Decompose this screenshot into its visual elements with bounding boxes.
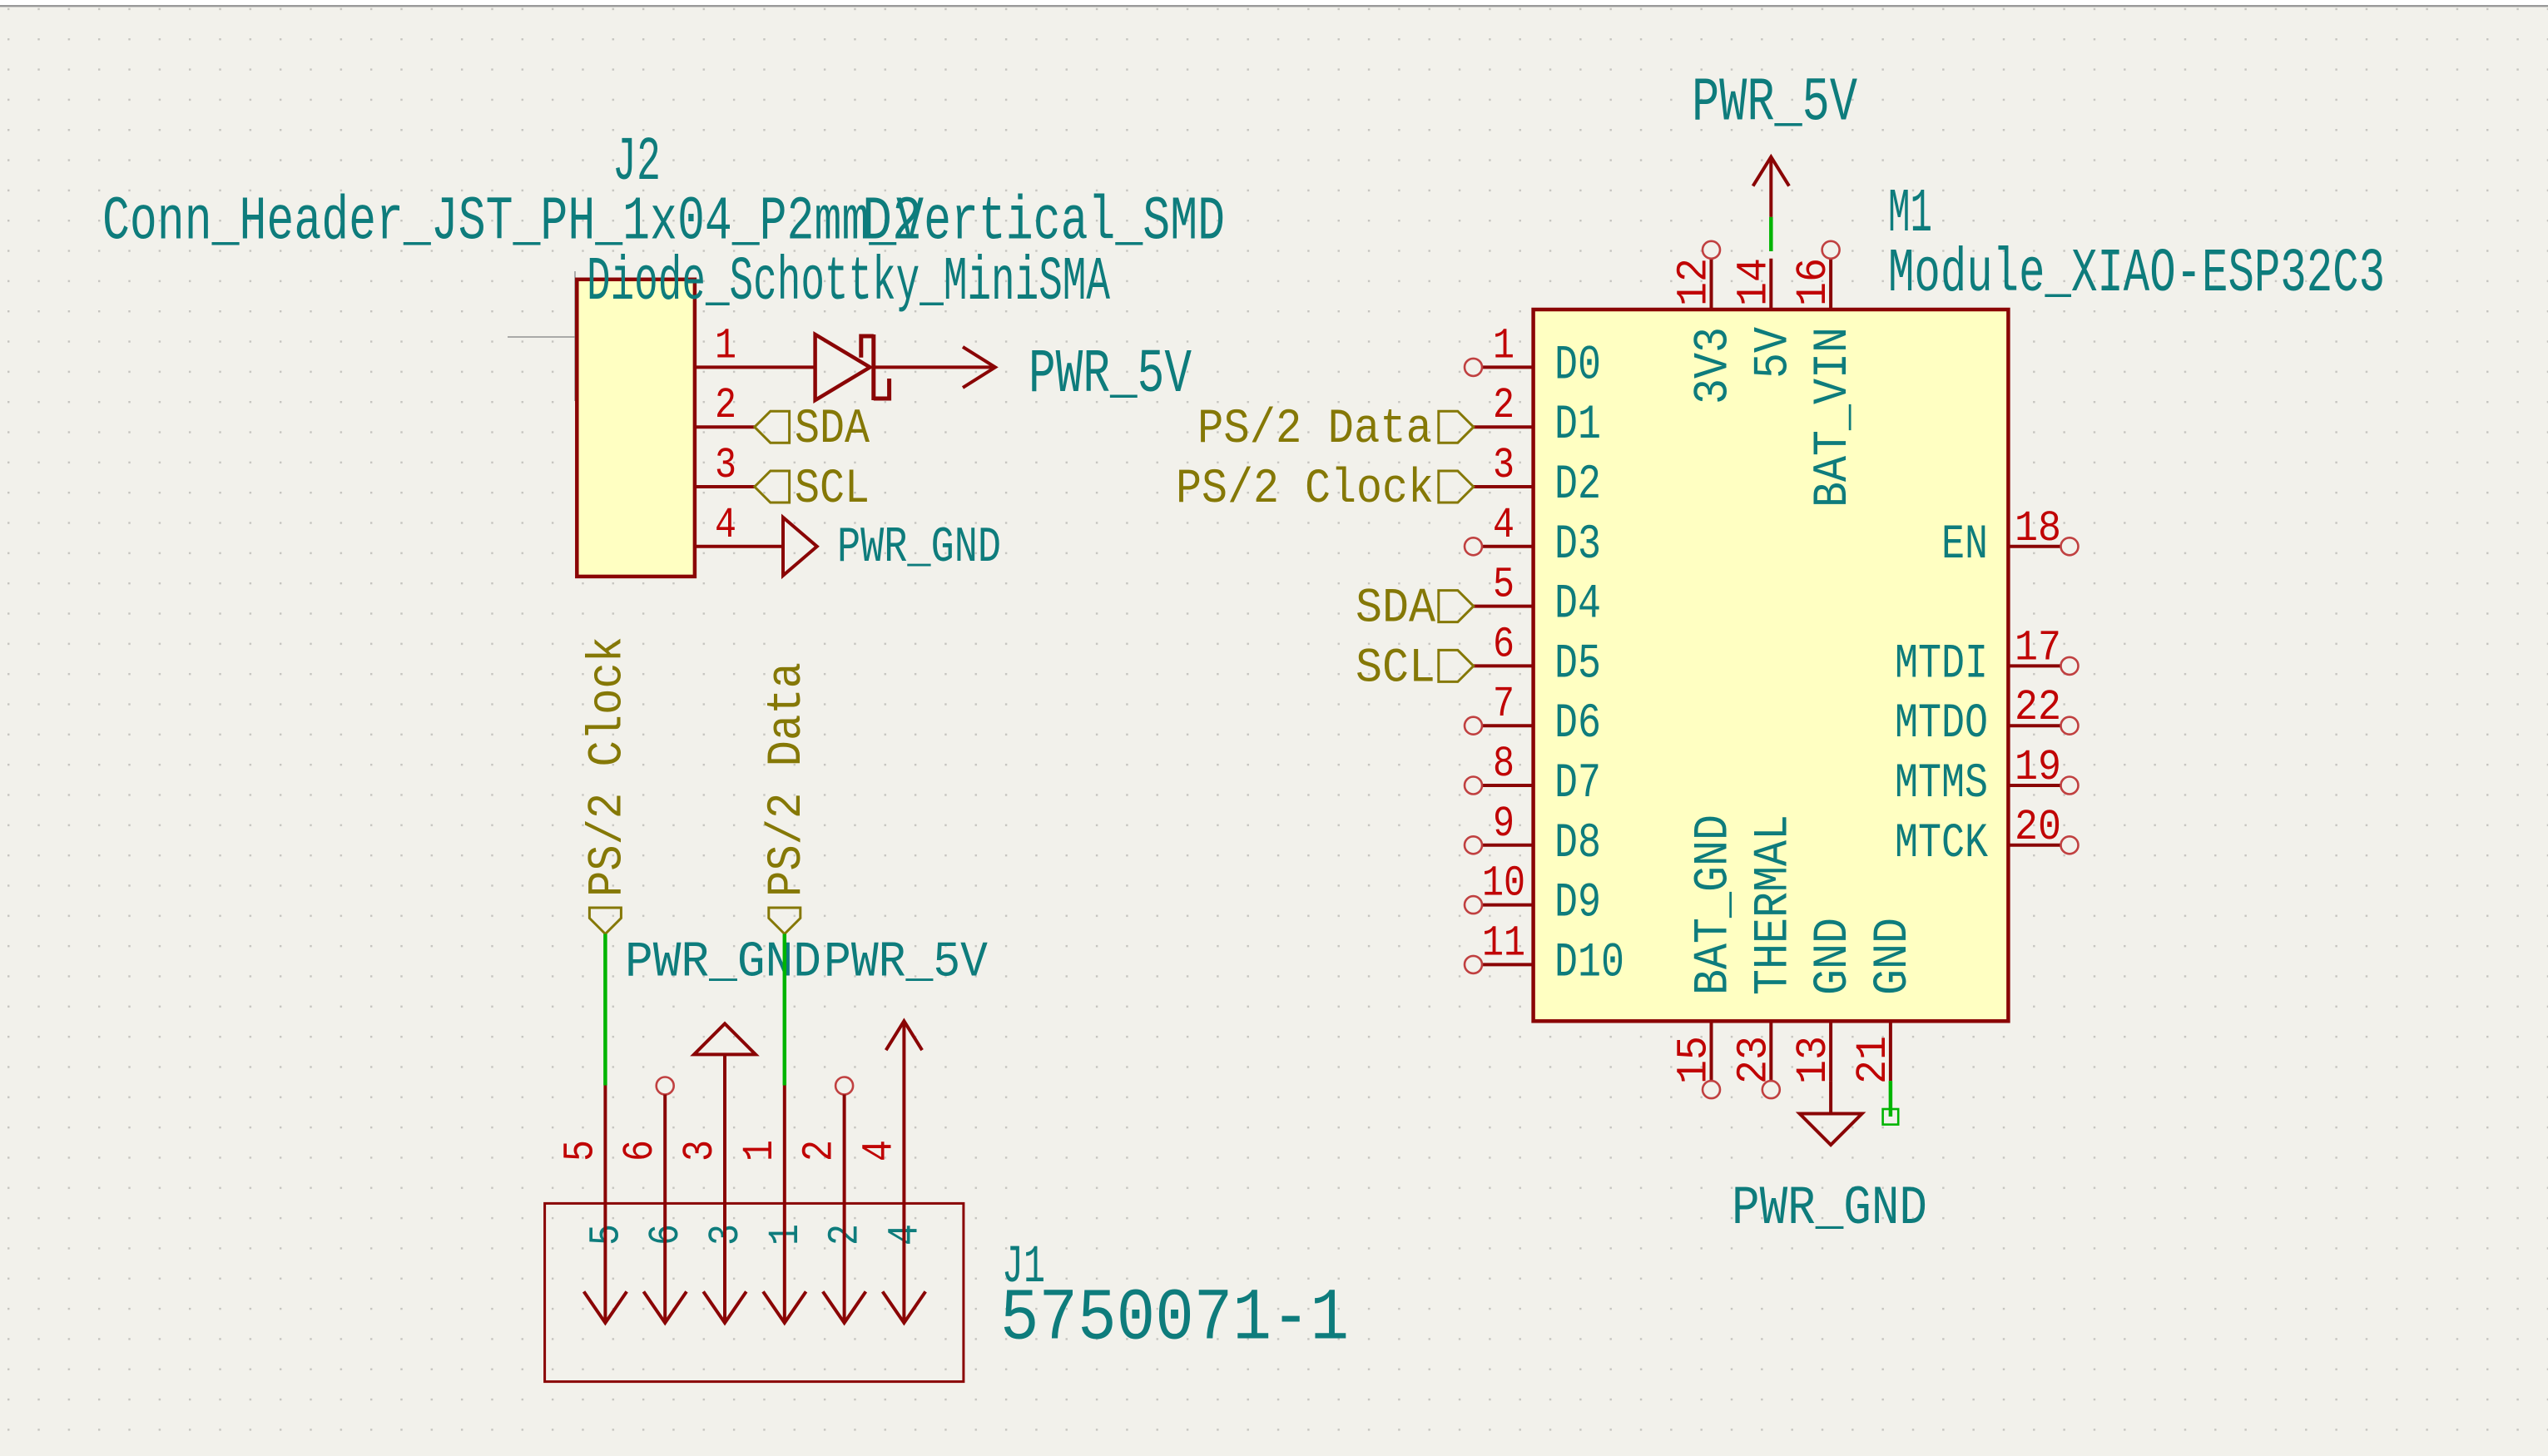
svg-text:SDA: SDA	[1356, 582, 1435, 636]
power symbol PWR_5V (top)	[1769, 157, 1772, 217]
svg-text:19: 19	[2015, 743, 2061, 792]
M1 top pin 12 stub	[1710, 259, 1713, 310]
svg-text:1: 1	[736, 1140, 785, 1161]
J2 pin 3 stub	[695, 485, 755, 488]
hier label SCL (M1 pin 6)	[1439, 650, 1474, 681]
svg-text:D4: D4	[1554, 578, 1601, 632]
svg-text:D6: D6	[1554, 697, 1601, 751]
svg-text:Conn_Header_JST_PH_1x04_P2mm_V: Conn_Header_JST_PH_1x04_P2mm_Vertical_SM…	[102, 187, 1225, 257]
svg-text:1: 1	[1493, 321, 1514, 370]
J2 pin 4 stub	[695, 545, 783, 548]
svg-text:SCL: SCL	[795, 463, 870, 517]
svg-text:EN: EN	[1941, 518, 1988, 572]
svg-text:D3: D3	[1554, 518, 1601, 572]
hier label PS/2 Data (M1 pin 2)	[1439, 411, 1474, 443]
svg-text:Diode_Schottky_MiniSMA: Diode_Schottky_MiniSMA	[587, 248, 1110, 318]
power symbol PWR_GND (J2 pin 4) arrow	[783, 518, 817, 576]
M1 pin 4 stub	[1482, 545, 1534, 548]
M1 right pin 19 stub	[2008, 784, 2060, 787]
svg-text:D0: D0	[1554, 339, 1601, 393]
svg-text:4: 4	[715, 501, 736, 550]
M1 right pin 20 stub	[2008, 844, 2060, 847]
J1 pin 2 open end	[835, 1077, 853, 1095]
svg-text:10: 10	[1482, 859, 1525, 909]
wire diode to PWR_5V	[874, 365, 995, 369]
svg-text:D5: D5	[1554, 637, 1601, 691]
J1 pin 5 lead	[603, 1086, 607, 1324]
svg-text:MTDO: MTDO	[1895, 697, 1988, 751]
svg-text:2: 2	[796, 1140, 845, 1161]
power symbol PWR_GND (J1 pin 3)	[694, 1023, 756, 1054]
svg-text:PWR_5V: PWR_5V	[1692, 69, 1857, 139]
svg-text:15: 15	[1670, 1036, 1719, 1084]
M1 pin 2 stub	[1474, 425, 1534, 428]
M1 right pin 22 stub	[2008, 724, 2060, 727]
svg-text:D10: D10	[1554, 936, 1624, 990]
svg-text:5: 5	[1493, 561, 1514, 610]
J1 pin 6 arrowhead	[643, 1291, 687, 1323]
M1 pin 5 stub	[1474, 605, 1534, 608]
svg-text:D2: D2	[1554, 458, 1601, 513]
J1 pin 6 lead	[663, 1095, 667, 1324]
J1 pin 3 lead	[723, 1054, 726, 1323]
svg-text:12: 12	[1670, 258, 1719, 306]
svg-text:7: 7	[1493, 680, 1514, 729]
connector J2 body	[577, 280, 695, 577]
wire pin14 to PWR_5V	[1769, 217, 1773, 251]
J2 pin 2 stub	[695, 425, 755, 428]
J1 pin 3 arrowhead	[703, 1291, 746, 1323]
M1 right pin 17 stub	[2008, 664, 2060, 667]
svg-text:MTDI: MTDI	[1895, 637, 1988, 691]
J1 pin 6 open end	[657, 1077, 674, 1095]
M1 bottom pin 23 stub	[1769, 1021, 1772, 1081]
J1 pin 1 arrowhead	[763, 1291, 806, 1323]
svg-text:17: 17	[2015, 623, 2061, 672]
svg-text:11: 11	[1482, 919, 1525, 968]
hier label SDA (M1 pin 5)	[1439, 591, 1474, 622]
J1 pin 2 arrowhead	[823, 1291, 866, 1323]
svg-text:PS/2 Clock: PS/2 Clock	[581, 636, 635, 897]
svg-text:D1: D1	[1554, 399, 1601, 453]
svg-text:9: 9	[1493, 800, 1514, 849]
connector J1 body	[545, 1203, 964, 1381]
hier label SDA (J2 pin 2)	[755, 411, 790, 443]
svg-text:PS/2 Clock: PS/2 Clock	[1176, 463, 1434, 517]
svg-text:PS/2 Data: PS/2 Data	[761, 662, 815, 897]
wire PS/2 Data to J1 pin 1	[783, 934, 787, 1086]
svg-text:PWR_5V: PWR_5V	[1029, 340, 1192, 410]
svg-text:21: 21	[1849, 1036, 1898, 1084]
svg-text:3V3: 3V3	[1688, 327, 1742, 404]
svg-text:4: 4	[1493, 501, 1514, 550]
svg-text:8: 8	[1493, 740, 1514, 789]
M1 right pin 18 stub	[2008, 545, 2060, 548]
svg-text:SDA: SDA	[795, 403, 870, 457]
svg-text:3: 3	[676, 1140, 725, 1161]
J1 pin 1 lead	[783, 1086, 786, 1324]
M1 bottom pin 15 stub	[1710, 1021, 1713, 1081]
svg-text:14: 14	[1729, 258, 1778, 306]
J1 pin 2 lead	[843, 1095, 846, 1324]
dangling wire end square	[1883, 1109, 1899, 1125]
M1 pin 9 stub	[1482, 844, 1534, 847]
M1 pin 1 stub	[1482, 365, 1534, 369]
M1 top pin 16 stub	[1829, 259, 1832, 310]
svg-text:18: 18	[2015, 504, 2061, 553]
svg-text:GND: GND	[1866, 918, 1921, 995]
M1 top pin 14 stub	[1769, 259, 1772, 310]
M1 pin 11 stub	[1482, 963, 1534, 966]
M1 pin 23 open end	[1762, 1081, 1780, 1098]
svg-text:PS/2 Data: PS/2 Data	[1197, 403, 1432, 457]
svg-text:16: 16	[1789, 258, 1838, 306]
svg-text:D7: D7	[1554, 757, 1601, 811]
M1 pin 15 open end	[1703, 1081, 1720, 1098]
svg-text:20: 20	[2015, 803, 2061, 852]
svg-text:PWR_GND: PWR_GND	[837, 520, 1001, 577]
svg-text:13: 13	[1789, 1036, 1838, 1084]
wire PS/2 Clock to J1 pin 5	[603, 934, 607, 1086]
power symbol PWR_GND (below M1)	[1829, 1081, 1832, 1113]
svg-text:2: 2	[1493, 381, 1514, 430]
hier label PS/2 Data (vertical)	[769, 908, 801, 934]
svg-text:6: 6	[616, 1140, 665, 1161]
svg-text:Module_XIAO-ESP32C3: Module_XIAO-ESP32C3	[1888, 240, 2385, 310]
M1 pin 8 stub	[1482, 784, 1534, 787]
power symbol PWR_5V (J1 pin 4)	[902, 1021, 905, 1323]
M1 bottom pin 21 stub	[1889, 1021, 1892, 1081]
svg-text:BAT_GND: BAT_GND	[1688, 815, 1742, 995]
M1 bottom pin 13 stub	[1829, 1021, 1832, 1081]
hier label PS/2 Clock (M1 pin 3)	[1439, 471, 1474, 503]
svg-text:3: 3	[1493, 441, 1514, 490]
J1 pin 5 arrowhead	[584, 1291, 627, 1323]
hier label SCL (J2 pin 3)	[755, 471, 790, 503]
svg-text:5750071-1: 5750071-1	[1000, 1279, 1349, 1361]
svg-text:THERMAL: THERMAL	[1747, 815, 1801, 995]
svg-text:PWR_GND: PWR_GND	[1732, 1177, 1927, 1240]
M1 pin 6 stub	[1474, 664, 1534, 667]
svg-text:6: 6	[1493, 620, 1514, 669]
wire pin 21 stub	[1889, 1081, 1893, 1117]
svg-text:MTMS: MTMS	[1895, 757, 1988, 811]
M1 pin 10 stub	[1482, 904, 1534, 907]
svg-text:GND: GND	[1807, 918, 1861, 995]
svg-text:2: 2	[715, 381, 736, 430]
svg-text:22: 22	[2015, 683, 2061, 732]
cursor crosshair	[508, 271, 642, 401]
J1 pin 4 arrowhead	[883, 1291, 926, 1323]
svg-text:4: 4	[855, 1140, 904, 1161]
J2 pin 1 wire	[695, 365, 815, 369]
hier label PS/2 Clock (vertical)	[589, 908, 621, 934]
svg-text:PWR_5V: PWR_5V	[824, 935, 988, 992]
svg-text:3: 3	[715, 441, 736, 490]
svg-text:1: 1	[715, 321, 736, 370]
svg-text:D8: D8	[1554, 817, 1601, 871]
diode D2 symbol	[815, 334, 890, 400]
svg-text:BAT_VIN: BAT_VIN	[1807, 327, 1861, 508]
svg-text:5V: 5V	[1747, 327, 1801, 379]
svg-text:MTCK: MTCK	[1895, 817, 1988, 871]
M1 pin 7 stub	[1482, 724, 1534, 727]
svg-text:SCL: SCL	[1356, 641, 1435, 696]
M1 pin 3 stub	[1474, 485, 1534, 488]
svg-text:23: 23	[1729, 1036, 1778, 1084]
svg-text:5: 5	[556, 1140, 605, 1161]
svg-text:D2: D2	[862, 187, 922, 257]
module M1 body	[1534, 310, 2009, 1021]
svg-text:D9: D9	[1554, 877, 1601, 931]
power symbol PWR_5V arrow (right)	[963, 347, 995, 388]
svg-text:PWR_GND: PWR_GND	[625, 935, 821, 992]
